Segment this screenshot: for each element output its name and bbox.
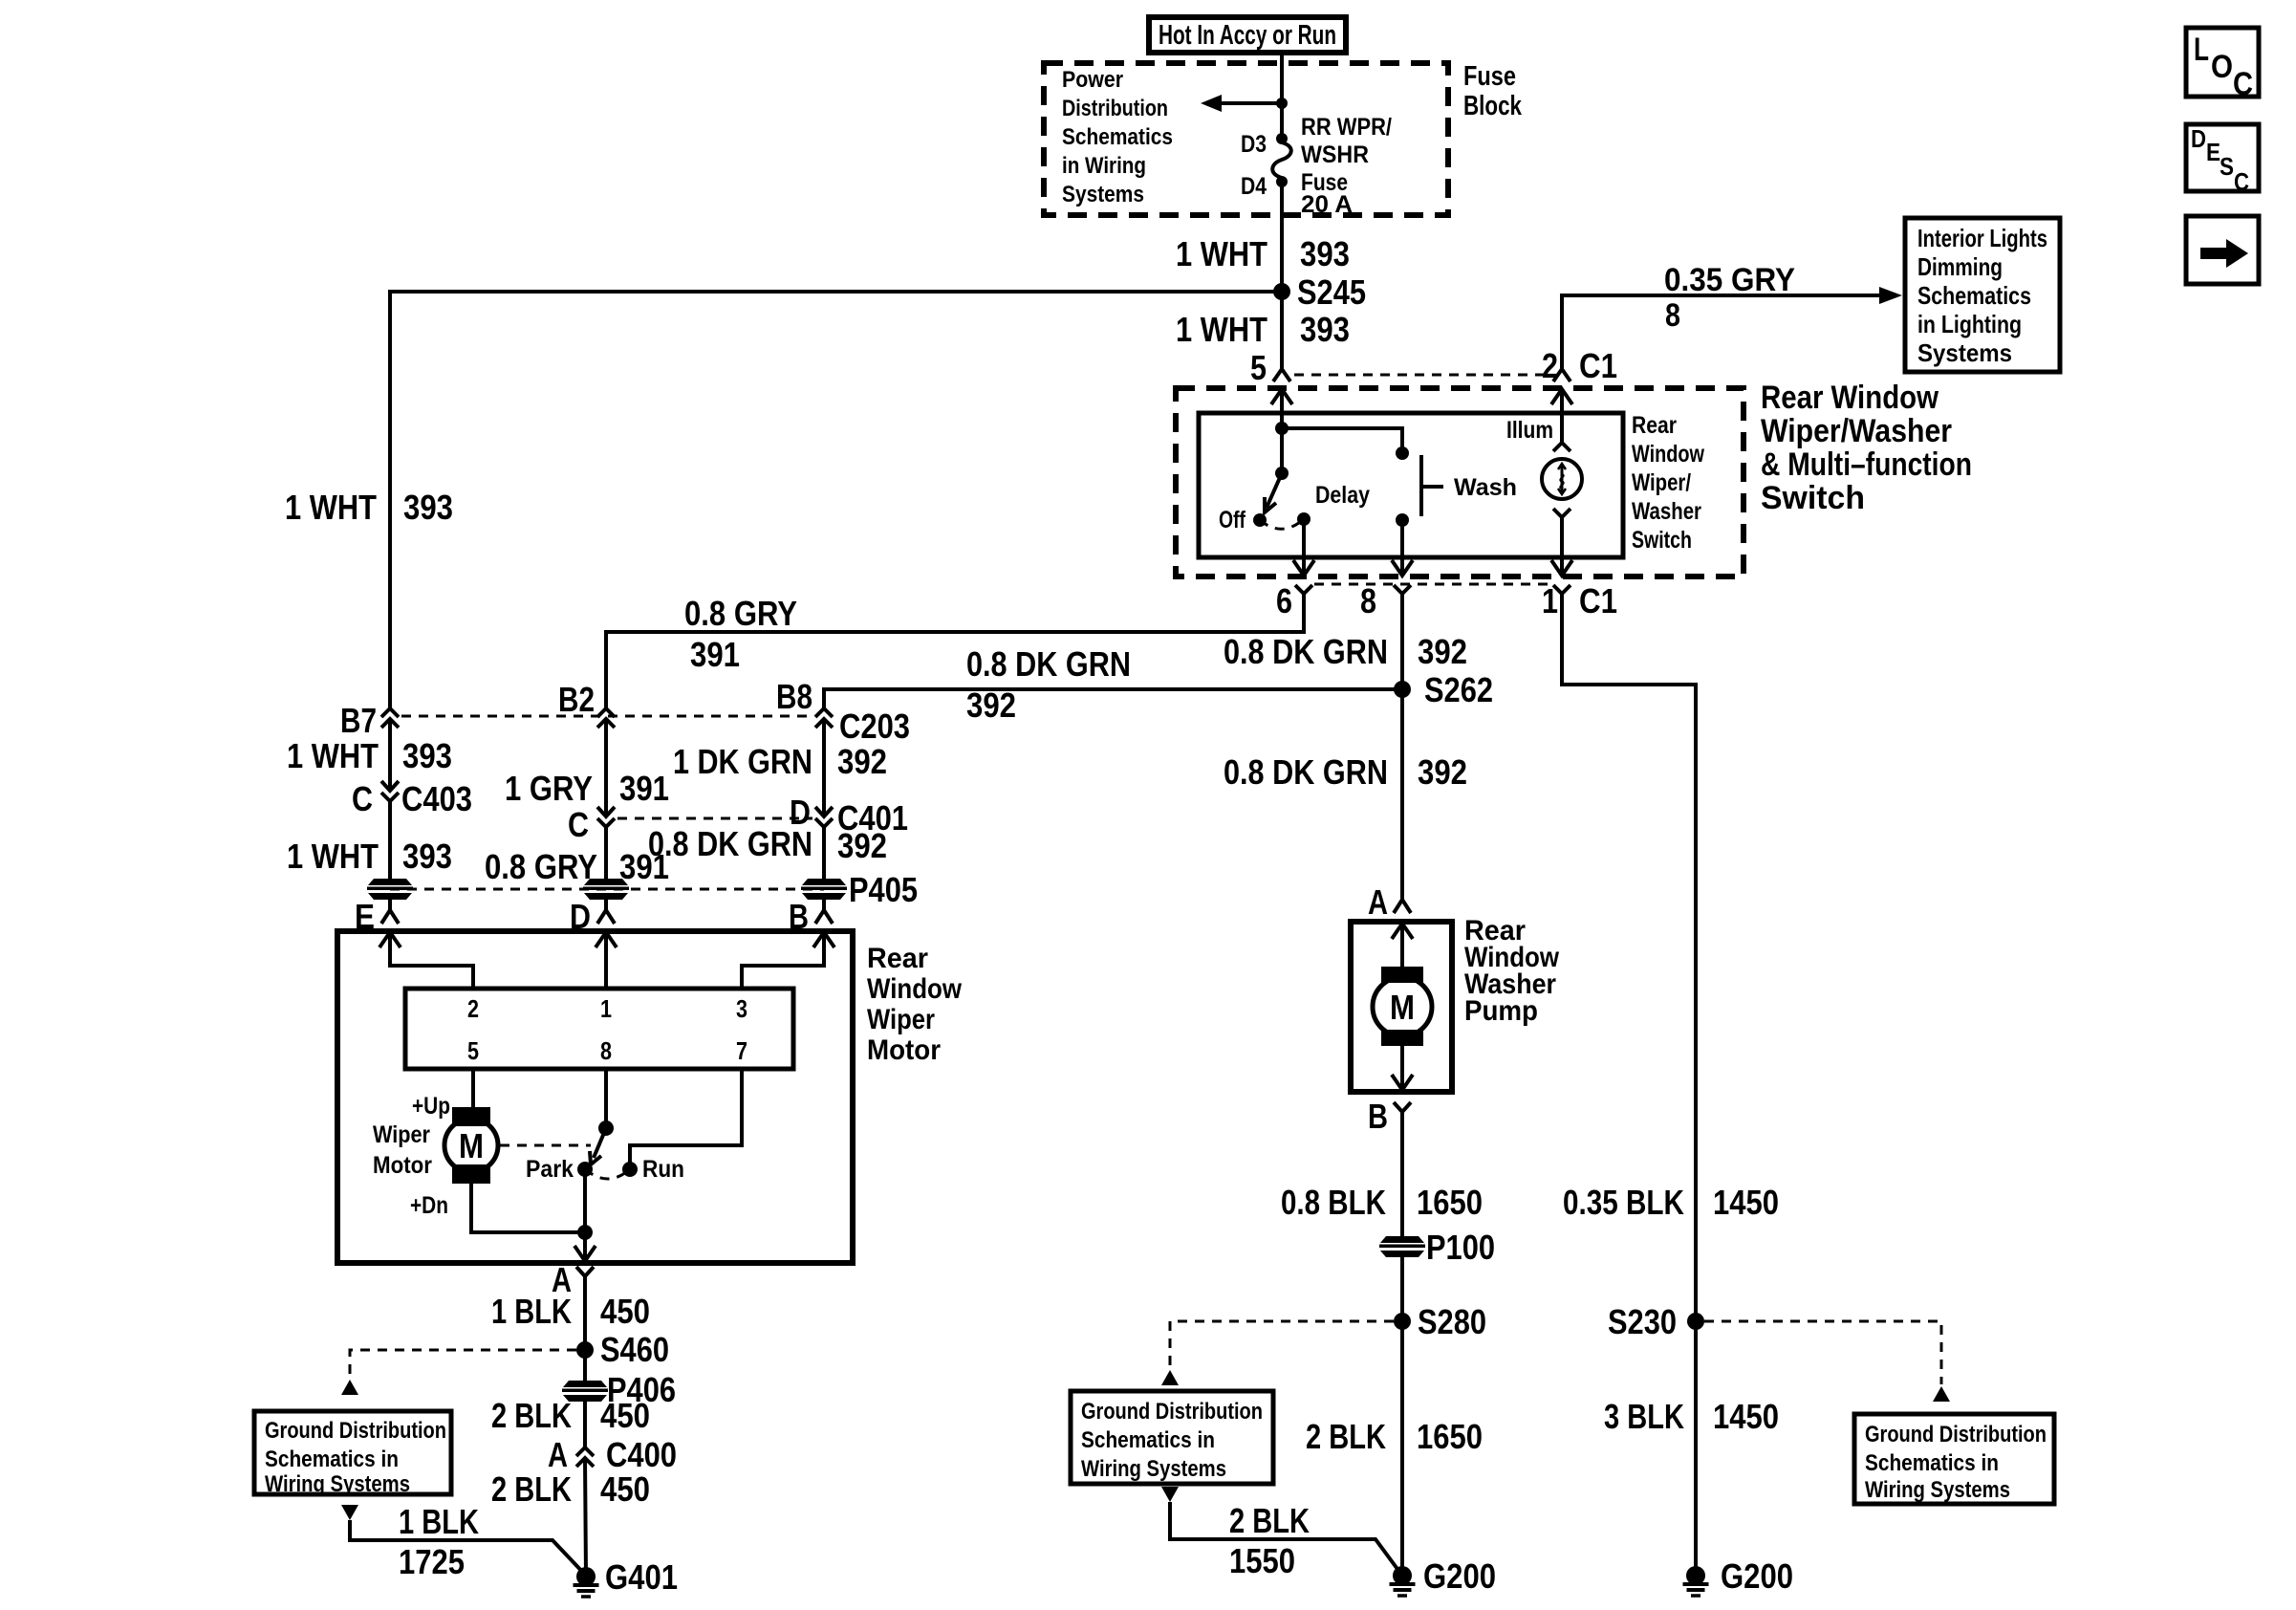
- svg-text:D3: D3: [1241, 131, 1267, 158]
- svg-text:Wiper: Wiper: [867, 1004, 935, 1035]
- grommet P405 left: [367, 879, 413, 900]
- svg-text:0.35 GRY: 0.35 GRY: [1664, 262, 1795, 298]
- svg-text:3: 3: [736, 994, 747, 1023]
- svg-text:2 BLK: 2 BLK: [491, 1396, 572, 1435]
- node junction to power distribution arrow: [1276, 98, 1288, 109]
- svg-text:Wiring Systems: Wiring Systems: [265, 1471, 410, 1497]
- svg-text:Wiper/Washer: Wiper/Washer: [1761, 413, 1952, 449]
- svg-text:450: 450: [600, 1469, 650, 1509]
- svg-text:+Dn: +Dn: [410, 1192, 448, 1219]
- svg-text:2: 2: [467, 994, 479, 1023]
- svg-text:391: 391: [690, 635, 740, 674]
- wire to wash contact: [1282, 428, 1402, 453]
- wire pin D into motor: [596, 932, 617, 989]
- wire label 2 BLK 450: [491, 1396, 650, 1435]
- svg-text:C: C: [352, 779, 373, 818]
- svg-text:in Wiring: in Wiring: [1062, 153, 1146, 179]
- svg-text:2 BLK: 2 BLK: [491, 1469, 572, 1509]
- wire from Hot In Accy or Run into fuse block: [1280, 53, 1284, 139]
- svg-text:S245: S245: [1297, 272, 1366, 312]
- svg-text:P405: P405: [849, 870, 918, 909]
- wash momentary switch: [1396, 455, 1517, 527]
- svg-text:392: 392: [837, 826, 887, 865]
- svg-text:392: 392: [837, 742, 887, 781]
- connector B2: [558, 680, 615, 728]
- pin B connector: [789, 897, 833, 936]
- svg-text:450: 450: [600, 1396, 650, 1435]
- svg-text:Ground Distribution: Ground Distribution: [1081, 1399, 1263, 1425]
- svg-text:Washer: Washer: [1632, 498, 1701, 525]
- svg-text:8: 8: [1665, 297, 1680, 334]
- svg-text:D4: D4: [1241, 173, 1267, 200]
- svg-text:1650: 1650: [1417, 1417, 1483, 1456]
- wire pin E into motor: [379, 932, 473, 989]
- svg-text:1550: 1550: [1229, 1541, 1295, 1580]
- wire terminal 5 to wiper motor +Up: [471, 1069, 475, 1107]
- contact Delay: [1297, 482, 1370, 526]
- wire fuse D4 down to S245: [1280, 182, 1284, 292]
- connector C401: [790, 793, 908, 865]
- svg-text:Distribution: Distribution: [1062, 96, 1168, 121]
- ground G401: [574, 1557, 679, 1597]
- svg-text:392: 392: [1418, 752, 1467, 792]
- fuse value label RR WPR/ WSHR Fuse 20 A: [1301, 114, 1392, 218]
- pin B connector pump: [1368, 1097, 1411, 1136]
- svg-text:0.8 GRY: 0.8 GRY: [485, 847, 597, 886]
- svg-text:A: A: [1368, 882, 1388, 922]
- svg-text:M: M: [1390, 988, 1415, 1027]
- wire S460 to P406: [583, 1350, 587, 1381]
- wire Delay contact down to pin 6: [1293, 519, 1314, 576]
- svg-text:1 GRY: 1 GRY: [505, 769, 593, 808]
- svg-text:Pump: Pump: [1464, 995, 1538, 1027]
- junction node park wire: [577, 1225, 593, 1240]
- svg-text:Motor: Motor: [373, 1152, 432, 1179]
- svg-text:B: B: [1368, 1097, 1388, 1136]
- svg-text:Rear: Rear: [1632, 412, 1677, 439]
- svg-text:8: 8: [600, 1036, 612, 1065]
- svg-text:3 BLK: 3 BLK: [1604, 1397, 1684, 1436]
- contact Run: [622, 1156, 684, 1183]
- svg-text:1450: 1450: [1713, 1183, 1779, 1222]
- svg-text:0.8 GRY: 0.8 GRY: [684, 594, 797, 633]
- svg-text:Block: Block: [1463, 91, 1523, 121]
- svg-text:Delay: Delay: [1315, 482, 1370, 509]
- wire label 0.35 BLK 1450 (right run): [1563, 1183, 1779, 1222]
- pin E connector: [355, 897, 399, 936]
- contact Park: [526, 1156, 593, 1183]
- svg-text:1 BLK: 1 BLK: [491, 1292, 572, 1331]
- svg-text:Illum: Illum: [1506, 417, 1553, 444]
- wire P405 to motor pin B: [822, 900, 826, 910]
- svg-text:6: 6: [1276, 581, 1292, 620]
- wire C mid to P405: [604, 827, 608, 880]
- wire label 0.8 BLK 1650: [1281, 1183, 1483, 1222]
- wire pin 6 to B2: 0.8 GRY 391: [606, 594, 1304, 708]
- svg-text:B8: B8: [776, 677, 812, 716]
- svg-text:Motor: Motor: [867, 1034, 941, 1066]
- svg-text:1 WHT: 1 WHT: [1176, 310, 1267, 349]
- fuse RR WPR/WSHR 20 A: [1272, 142, 1291, 178]
- svg-text:Wash: Wash: [1454, 474, 1517, 501]
- svg-text:393: 393: [402, 837, 452, 876]
- washer pump M2 housing: Rear Window Washer Pump: [1351, 922, 1452, 1092]
- motor terminal strip: [405, 989, 793, 1069]
- connector B7: [340, 701, 399, 740]
- wire pin 8 down to S262: [1400, 594, 1404, 689]
- svg-text:E: E: [2206, 138, 2220, 166]
- ground G200 middle: [1390, 1556, 1497, 1596]
- wire label 1 WHT 393: [1176, 234, 1350, 273]
- wire label 1 WHT 393: [1176, 310, 1350, 349]
- switch inner label Rear Window Wiper/Washer Switch: [1632, 412, 1704, 554]
- pin D connector: [570, 897, 615, 936]
- wire pin B into motor: [742, 932, 834, 989]
- connector dashed line pin5 to pin2: [1294, 374, 1549, 377]
- svg-text:5: 5: [467, 1036, 479, 1065]
- svg-text:G200: G200: [1721, 1556, 1793, 1596]
- svg-text:Run: Run: [642, 1156, 684, 1183]
- connector C400 pin A: [548, 1435, 677, 1474]
- svg-text:Systems: Systems: [1062, 182, 1144, 207]
- wire B8 to C401: [822, 719, 826, 816]
- pin D4: [1241, 173, 1288, 200]
- switch throw dashed arc Off to Delay: [1260, 519, 1304, 529]
- svg-text:Schematics in: Schematics in: [1865, 1450, 1999, 1476]
- svg-text:M: M: [459, 1126, 484, 1165]
- svg-text:O: O: [2211, 49, 2233, 85]
- note: Power Distribution Schematics in Wiring Systems: [1062, 67, 1173, 207]
- svg-text:G401: G401: [605, 1557, 678, 1597]
- grommet P405 right: [801, 870, 918, 909]
- pin A connector pump: [1368, 882, 1411, 922]
- pump label Rear Window Washer Pump: [1464, 915, 1560, 1027]
- wire label 1 WHT 393: [287, 837, 452, 876]
- svg-text:Wiper/: Wiper/: [1632, 469, 1691, 496]
- svg-text:1650: 1650: [1417, 1183, 1483, 1222]
- wire label 1 BLK 450: [491, 1292, 650, 1331]
- wire C401 to P405: [822, 827, 826, 880]
- wire label 3 BLK 1450: [1604, 1397, 1779, 1436]
- wire label 2 BLK 450: [491, 1469, 650, 1509]
- svg-text:C1: C1: [1579, 346, 1617, 385]
- legend box DESC: [2186, 124, 2259, 196]
- fuse block label: [1463, 61, 1523, 121]
- pin 8 connector: [1360, 581, 1411, 620]
- note box: Interior Lights Dimming Schematics in Lighting Systems: [1905, 218, 2060, 372]
- svg-text:391: 391: [619, 769, 669, 808]
- svg-text:1450: 1450: [1713, 1397, 1779, 1436]
- wire P405 to motor pin E: [388, 900, 392, 910]
- wire pump B to P100: 0.8 BLK 1650: [1400, 1112, 1404, 1236]
- svg-text:0.35 BLK: 0.35 BLK: [1563, 1183, 1684, 1222]
- wire S245 branch left to B7: [390, 292, 1282, 708]
- svg-text:1: 1: [600, 994, 612, 1023]
- svg-text:Off: Off: [1219, 507, 1246, 533]
- wash switch top contact: [1396, 446, 1409, 460]
- park switch arm: [590, 1128, 606, 1164]
- svg-text:+Up: +Up: [412, 1093, 450, 1120]
- wire label 1 GRY 391: [505, 769, 669, 808]
- svg-text:B7: B7: [340, 701, 377, 740]
- dashed wire S230 to ground distribution note: [1704, 1321, 1950, 1402]
- wire label 0.8 DK GRN 392: [1224, 632, 1467, 671]
- illumination lamp: [1506, 417, 1582, 557]
- svg-text:8: 8: [1360, 581, 1376, 620]
- svg-text:Wiper: Wiper: [373, 1121, 430, 1148]
- grommet P406: [562, 1370, 676, 1409]
- dashed wire S460 to ground distribution note: [341, 1350, 576, 1395]
- wire label 1 WHT 393: [285, 488, 453, 527]
- splice S280: [1394, 1302, 1486, 1341]
- svg-text:0.8 BLK: 0.8 BLK: [1281, 1183, 1386, 1222]
- svg-text:1 WHT: 1 WHT: [285, 488, 377, 527]
- svg-text:0.8 DK GRN: 0.8 DK GRN: [1224, 752, 1388, 792]
- note box: Ground Distribution Schematics in Wiring Systems (middle): [1071, 1391, 1273, 1484]
- svg-text:1 WHT: 1 WHT: [287, 837, 379, 876]
- svg-text:393: 393: [1300, 234, 1350, 273]
- wire S262 branch left to B8: 0.8 DK GRN 392: [824, 689, 1402, 708]
- splice S262: [1394, 670, 1493, 709]
- svg-text:B2: B2: [558, 680, 595, 719]
- wire P100 to S280: [1400, 1257, 1404, 1321]
- svg-text:Rear: Rear: [867, 943, 928, 974]
- svg-text:D: D: [2191, 124, 2206, 153]
- svg-text:Systems: Systems: [1917, 338, 2012, 367]
- mechanical link dashed motor to park switch: [500, 1144, 591, 1147]
- connector C mid: [568, 805, 615, 844]
- connector row dashed line B7 B2 B8: [401, 715, 812, 718]
- note box: Ground Distribution Schematics in Wiring Systems (left): [254, 1411, 451, 1497]
- svg-text:Schematics in: Schematics in: [265, 1447, 399, 1472]
- wire ground note to G200: 2 BLK 1550: [1161, 1487, 1402, 1576]
- svg-text:1 WHT: 1 WHT: [1176, 234, 1267, 273]
- wire park contact down to pin A: [574, 1169, 596, 1261]
- ground G200 right: [1683, 1556, 1794, 1596]
- svg-text:S: S: [2220, 152, 2234, 181]
- svg-text:20 A: 20 A: [1301, 191, 1353, 218]
- legend box LOC: [2186, 28, 2259, 102]
- wire S280 down to G200: 2 BLK 1650: [1400, 1321, 1404, 1576]
- svg-text:C: C: [2233, 66, 2253, 102]
- wire switch pin 2 up and right to interior lights dimming: [1562, 295, 1880, 368]
- svg-text:2 BLK: 2 BLK: [1229, 1501, 1310, 1540]
- wire motor A down to S460: 1 BLK 450: [583, 1276, 587, 1350]
- fuse block dashed box: [1044, 63, 1448, 215]
- wire label 2 BLK 1650: [1306, 1417, 1483, 1456]
- svg-text:Window: Window: [1632, 441, 1704, 468]
- svg-text:P100: P100: [1426, 1228, 1495, 1267]
- svg-text:393: 393: [403, 488, 453, 527]
- svg-text:Dimming: Dimming: [1917, 252, 2003, 281]
- svg-text:C203: C203: [839, 707, 910, 746]
- wire B2 to C: [604, 719, 608, 816]
- splice S245: [1273, 272, 1366, 312]
- wire pin 1 to right ground run: [1562, 594, 1696, 1576]
- wiper switch common contact: [1275, 428, 1289, 480]
- connector C403: [352, 779, 472, 818]
- svg-text:G200: G200: [1423, 1556, 1496, 1596]
- svg-text:A: A: [548, 1435, 568, 1474]
- svg-text:Switch: Switch: [1761, 480, 1865, 516]
- svg-text:Fuse: Fuse: [1463, 61, 1516, 92]
- wire wash switch down to pin 8: [1392, 520, 1413, 576]
- wiper switch arm: [1265, 473, 1282, 512]
- wiper motor armature: [444, 1107, 498, 1184]
- dashed wire S280 to ground distribution note: [1161, 1321, 1394, 1385]
- svg-text:Wiring Systems: Wiring Systems: [1865, 1477, 2010, 1503]
- svg-text:393: 393: [402, 736, 452, 775]
- motor M1 housing: Rear Window Wiper Motor: [337, 931, 853, 1263]
- svg-text:S230: S230: [1608, 1302, 1677, 1341]
- wire S245 down to switch pin 5: [1280, 292, 1284, 368]
- wire arrow to power distribution schematics: [1201, 95, 1282, 112]
- connector B8 C203: [776, 677, 910, 746]
- junction node in switch: [1275, 422, 1289, 435]
- svg-text:S460: S460: [600, 1330, 669, 1369]
- svg-text:S280: S280: [1418, 1302, 1486, 1341]
- pin D3: [1241, 131, 1288, 158]
- svg-text:C400: C400: [606, 1435, 677, 1474]
- svg-text:0.8 DK GRN: 0.8 DK GRN: [648, 824, 812, 863]
- svg-text:Rear Window: Rear Window: [1761, 380, 1939, 416]
- wire label 0.8 GRY 391: [485, 847, 669, 886]
- svg-text:Ground Distribution: Ground Distribution: [1865, 1422, 2047, 1447]
- svg-text:392: 392: [1418, 632, 1467, 671]
- svg-text:450: 450: [600, 1292, 650, 1331]
- grommet row dashed line: [390, 888, 824, 891]
- wire illum lamp top to pin 2: [1551, 389, 1572, 443]
- wire wiper motor to park junction: [471, 1184, 585, 1232]
- note box: Ground Distribution Schematics in Wiring Systems (right): [1854, 1414, 2054, 1504]
- svg-text:1 BLK: 1 BLK: [399, 1502, 479, 1541]
- svg-text:393: 393: [1300, 310, 1350, 349]
- power label box "Hot In Accy or Run": [1149, 17, 1346, 53]
- svg-text:Interior Lights: Interior Lights: [1917, 224, 2047, 252]
- svg-text:Power: Power: [1062, 67, 1123, 93]
- svg-text:S262: S262: [1424, 670, 1493, 709]
- svg-text:Park: Park: [526, 1156, 574, 1183]
- svg-text:C: C: [2234, 167, 2249, 196]
- grommet P405 mid: [583, 879, 629, 900]
- wire illum lamp down to pin 1: [1551, 517, 1572, 576]
- svg-text:2 BLK: 2 BLK: [1306, 1417, 1386, 1456]
- splice S230: [1608, 1302, 1704, 1341]
- pin 2 connector C1: [1542, 346, 1617, 385]
- wire label 1 WHT 393: [287, 736, 452, 775]
- svg-text:C403: C403: [401, 779, 472, 818]
- svg-text:7: 7: [736, 1036, 747, 1065]
- svg-text:Schematics: Schematics: [1062, 124, 1173, 150]
- svg-text:1 DK GRN: 1 DK GRN: [673, 742, 812, 781]
- svg-text:C: C: [568, 805, 589, 844]
- svg-text:Schematics: Schematics: [1917, 281, 2031, 310]
- wire terminal 8 to park switch arm: [598, 1069, 614, 1136]
- switch inner body box: [1199, 413, 1623, 557]
- svg-text:in Lighting: in Lighting: [1917, 310, 2022, 338]
- wire B7 to C403: [388, 719, 392, 791]
- wire C400 to G401: 2 BLK 450: [585, 1458, 586, 1577]
- wire S262 down to washer pump pin A: 0.8 DK GRN 392: [1400, 689, 1404, 900]
- wire from ground note to G401: 1 BLK 1725: [341, 1505, 587, 1577]
- svg-text:C1: C1: [1579, 581, 1617, 620]
- contact Off: [1219, 507, 1267, 533]
- pin 1 connector C1: [1542, 581, 1617, 620]
- wire pin5 entering switch: [1271, 389, 1292, 428]
- connector dashed line pin6 pin8 pin1: [1314, 583, 1551, 586]
- switch label Rear Window Wiper/Washer & Multi-function Switch: [1761, 380, 1972, 516]
- wire pump motor down to pin B: [1392, 1036, 1413, 1090]
- svg-text:Schematics in: Schematics in: [1081, 1427, 1215, 1453]
- pin A connector motor: [552, 1260, 594, 1299]
- wire C403 to P405: [388, 801, 392, 880]
- pin 5 connector: [1250, 348, 1290, 387]
- svg-text:Ground Distribution: Ground Distribution: [265, 1418, 446, 1444]
- svg-text:1 WHT: 1 WHT: [287, 736, 379, 775]
- svg-text:Switch: Switch: [1632, 527, 1692, 554]
- svg-text:Wiring Systems: Wiring Systems: [1081, 1456, 1226, 1482]
- svg-text:Hot In Accy or Run: Hot In Accy or Run: [1159, 20, 1336, 51]
- svg-text:0.8 DK GRN: 0.8 DK GRN: [966, 644, 1131, 684]
- wire label 0.8 DK GRN 392: [1224, 752, 1467, 792]
- svg-text:Window: Window: [867, 973, 963, 1005]
- splice S460: [576, 1330, 669, 1369]
- motor label Rear Window Wiper Motor: [867, 943, 963, 1066]
- wire P405 to motor pin D: [604, 900, 608, 910]
- svg-text:& Multi–function: & Multi–function: [1761, 446, 1972, 483]
- wire pin A into pump: [1392, 924, 1413, 978]
- svg-text:RR WPR/: RR WPR/: [1301, 114, 1392, 141]
- washer pump motor armature: [1373, 967, 1432, 1046]
- legend box arrow: [2186, 216, 2259, 284]
- connector row dashed line C to C401: [617, 817, 812, 820]
- wire label 1 DK GRN 392: [673, 742, 887, 781]
- svg-text:WSHR: WSHR: [1301, 141, 1369, 168]
- switch throw dashed arc Park to Run: [585, 1169, 630, 1179]
- svg-text:1725: 1725: [399, 1542, 465, 1581]
- svg-text:392: 392: [966, 685, 1016, 725]
- svg-text:L: L: [2194, 32, 2209, 68]
- wire Run contact to terminal 7: [630, 1069, 742, 1169]
- wire P406 to C400: 2 BLK 450: [583, 1402, 587, 1447]
- pin 6 connector: [1276, 581, 1312, 620]
- svg-text:5: 5: [1250, 348, 1267, 387]
- grommet P100: [1379, 1228, 1495, 1267]
- switch U1 dashed housing: Rear Window Wiper/Washer & Multi-function Switch: [1176, 388, 1744, 577]
- svg-text:0.8 DK GRN: 0.8 DK GRN: [1224, 632, 1388, 671]
- label Wiper Motor: [373, 1121, 432, 1179]
